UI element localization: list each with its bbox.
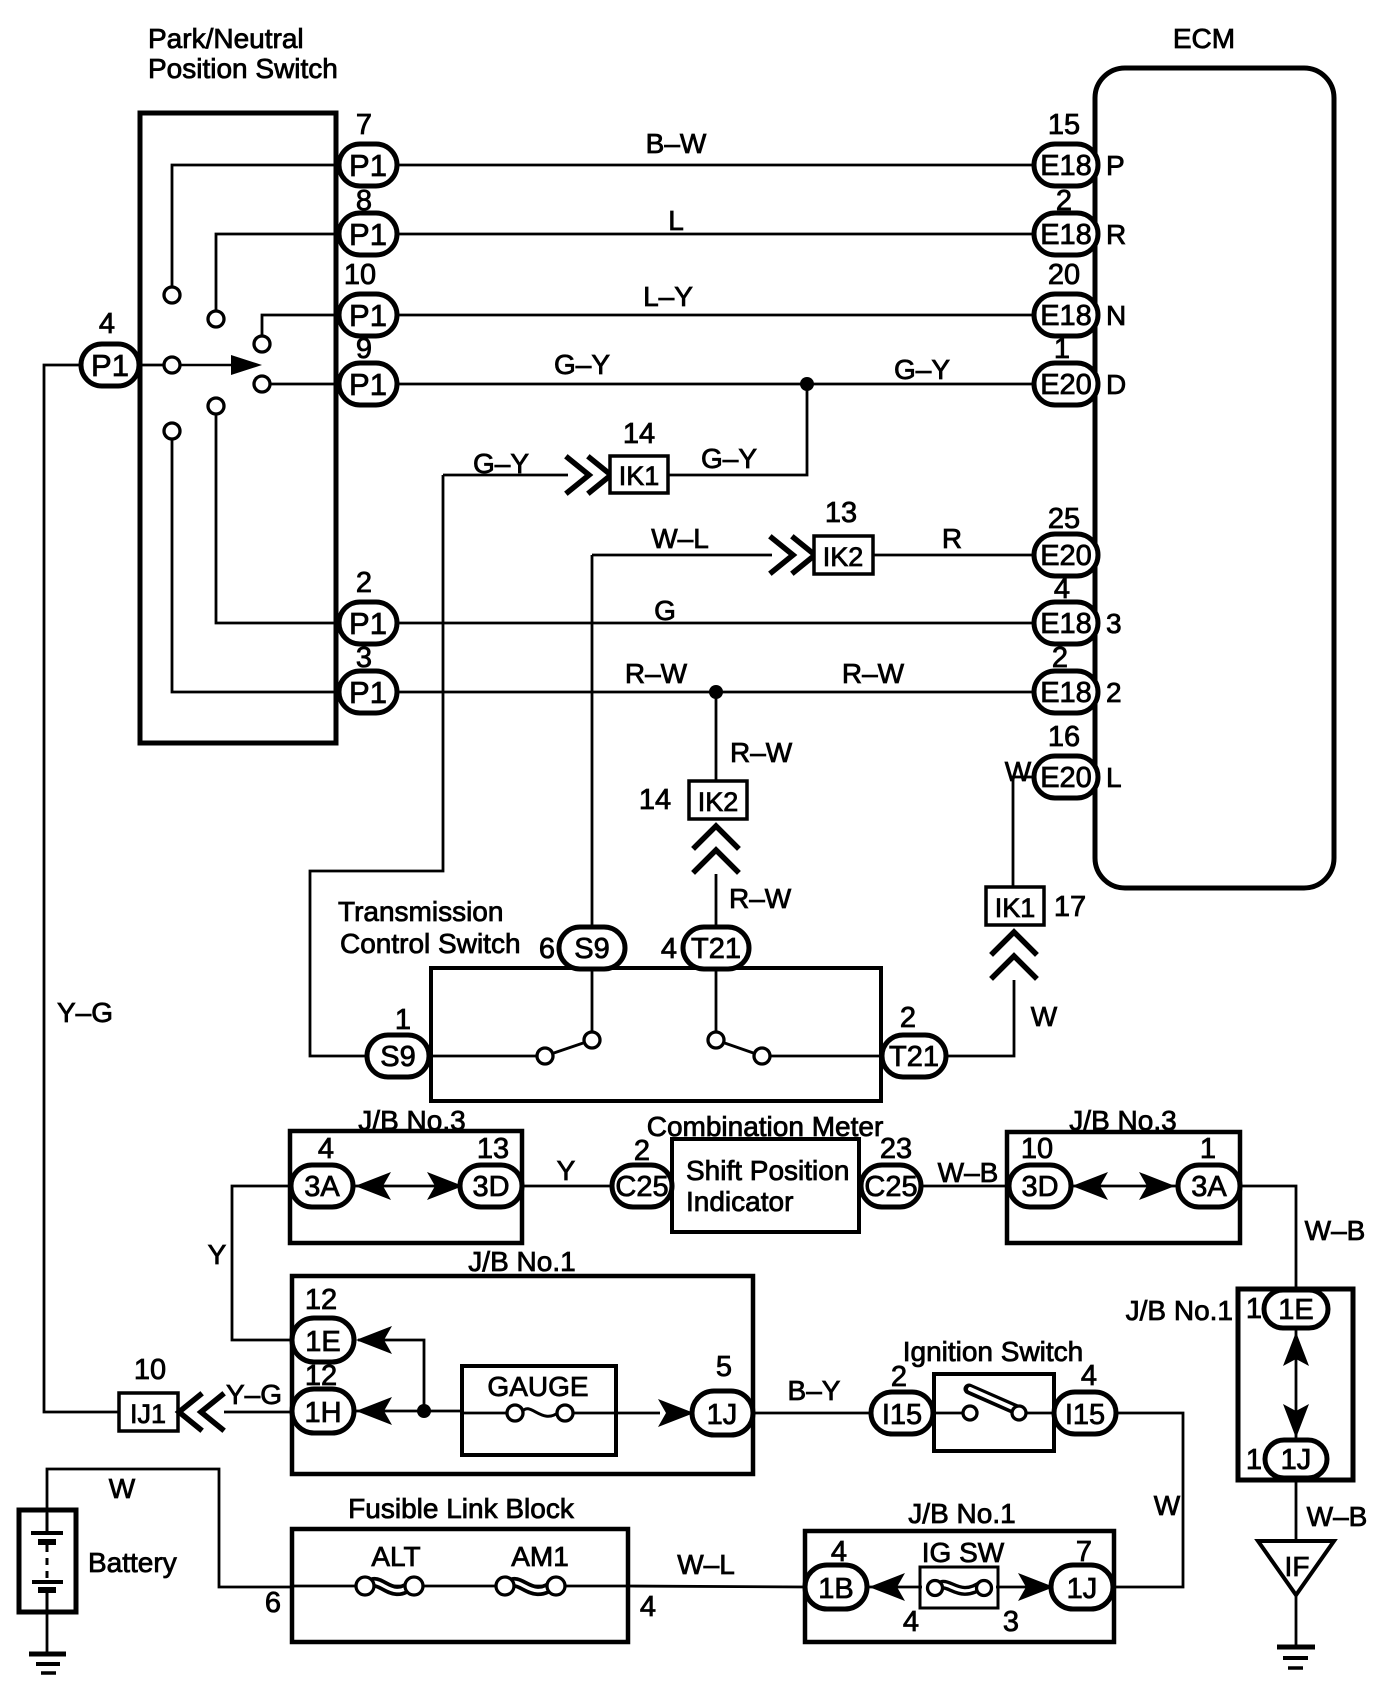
contact pin2 — [208, 398, 224, 414]
svg-text:AM1: AM1 — [511, 1541, 569, 1572]
fuse IG SW box — [920, 1567, 998, 1608]
contact pin9 — [254, 376, 270, 392]
wire Y 3D to C25 — [522, 1185, 612, 1188]
svg-text:P1: P1 — [349, 675, 387, 710]
wire W-B 3A down to 1E — [1240, 1186, 1296, 1290]
svg-text:Y–G: Y–G — [57, 997, 113, 1028]
svg-text:C25: C25 — [615, 1171, 668, 1203]
park/neutral switch box — [140, 113, 336, 743]
connector C25 pin2 — [612, 1165, 672, 1207]
svg-text:Y–G: Y–G — [226, 1379, 282, 1410]
wire W-L to IK2 — [592, 554, 772, 557]
left switch contact b — [584, 1032, 600, 1048]
wire Y-G long P1.4 to IJ1 — [44, 365, 119, 1412]
contact pin3 — [164, 423, 180, 439]
svg-text:Shift Position: Shift Position — [686, 1155, 849, 1186]
svg-text:N: N — [1106, 300, 1126, 331]
svg-text:12: 12 — [305, 1284, 337, 1316]
ground symbol right — [1277, 1647, 1315, 1668]
connector IK1 pin14 — [610, 456, 668, 493]
wire I15.2 into box — [933, 1412, 964, 1415]
wire B-Y 1J to I15 — [753, 1412, 873, 1415]
svg-text:10: 10 — [1021, 1133, 1053, 1165]
svg-text:T21: T21 — [691, 933, 741, 965]
arrow left between 3A 3D — [355, 1172, 391, 1200]
connector 1E pin1 right — [1264, 1290, 1328, 1328]
wire T21.4 down to right contact — [715, 969, 718, 1040]
left switch lever — [545, 1040, 592, 1056]
J/B No.3 left box — [290, 1131, 522, 1243]
svg-text:23: 23 — [880, 1133, 912, 1165]
connector P1 pin4 — [81, 344, 139, 386]
svg-text:4: 4 — [318, 1133, 334, 1165]
wire Y-G IJ1 to 1H — [224, 1411, 293, 1414]
connector E18 R — [1034, 213, 1098, 255]
svg-text:E18: E18 — [1040, 300, 1092, 332]
rotor arrow — [180, 355, 262, 375]
wire S9.6 vertical — [591, 555, 594, 928]
svg-text:Position Switch: Position Switch — [148, 53, 338, 84]
svg-text:1H: 1H — [304, 1397, 341, 1429]
svg-text:E18: E18 — [1040, 150, 1092, 182]
svg-text:W–L: W–L — [677, 1549, 735, 1580]
wire P1 pin10 internal — [262, 315, 336, 339]
svg-text:17: 17 — [1054, 891, 1086, 923]
ground symbol battery — [29, 1654, 66, 1673]
wire 1B to IG SW — [865, 1586, 922, 1589]
connector IJ1 pin10 — [119, 1393, 178, 1431]
connector 3A pin1 — [1178, 1165, 1240, 1207]
wire 1E arrow to junction — [358, 1340, 424, 1411]
connector E20 L — [1034, 756, 1098, 798]
connector T21 pin2 — [882, 1035, 946, 1077]
svg-text:2: 2 — [356, 567, 372, 599]
svg-text:3A: 3A — [1191, 1171, 1227, 1203]
battery B1 — [19, 1510, 76, 1612]
wire junction down to IK1 branch — [668, 384, 807, 475]
wire contact to I15.4 — [1025, 1412, 1056, 1415]
svg-text:W–B: W–B — [1305, 1215, 1366, 1246]
wire 1E to 1J vertical — [1295, 1327, 1298, 1440]
wire IG SW to 1J — [996, 1586, 1053, 1589]
connector 1J pin1 right — [1265, 1440, 1327, 1478]
svg-text:14: 14 — [639, 784, 671, 816]
svg-text:13: 13 — [477, 1133, 509, 1165]
wire IF to ground — [1295, 1595, 1298, 1647]
svg-text:L–Y: L–Y — [643, 281, 693, 312]
svg-text:W: W — [109, 1473, 136, 1504]
chevrons into IK2 — [772, 538, 815, 572]
ignition contact left — [963, 1406, 977, 1420]
arrow right between right 3D 3A — [1139, 1172, 1175, 1200]
svg-text:B–Y: B–Y — [788, 1375, 841, 1406]
svg-text:C25: C25 — [864, 1171, 917, 1203]
svg-text:1: 1 — [1200, 1133, 1216, 1165]
wire P1 pin7 internal — [172, 165, 336, 290]
svg-text:3: 3 — [356, 642, 372, 674]
ignition lever — [969, 1389, 1017, 1410]
fuse IG SW element — [928, 1581, 992, 1596]
svg-text:5: 5 — [716, 1351, 732, 1383]
connector T21 pin4 — [683, 927, 749, 969]
connector P1 pin10 — [339, 294, 397, 336]
fusible link AM1 — [496, 1577, 565, 1595]
wire 3D to 3A right block — [1071, 1185, 1178, 1188]
svg-text:P: P — [1106, 150, 1125, 181]
wire GAUGE to 1J — [616, 1412, 660, 1415]
svg-text:1: 1 — [1246, 1293, 1262, 1325]
svg-text:R: R — [942, 523, 962, 554]
J/B No.1 main box — [292, 1276, 753, 1474]
contact pin4 — [164, 357, 180, 373]
svg-text:1J: 1J — [1281, 1444, 1312, 1476]
connector I15 pin4 — [1054, 1392, 1116, 1434]
contact pin10 — [254, 336, 270, 352]
svg-text:J/B No.1: J/B No.1 — [1126, 1295, 1233, 1326]
svg-text:14: 14 — [623, 418, 655, 450]
chevrons below IK2 pointing up — [695, 826, 737, 871]
wire W-L fusible to 1B — [628, 1586, 807, 1587]
fuse GAUGE element — [462, 1405, 616, 1421]
connector S9 pin1 — [367, 1035, 429, 1077]
svg-text:G: G — [654, 595, 676, 626]
connector P1 pin7 — [339, 144, 397, 186]
svg-text:R: R — [1106, 219, 1126, 250]
svg-text:2: 2 — [900, 1002, 916, 1034]
node junction R-W — [709, 685, 723, 699]
svg-text:6: 6 — [539, 933, 555, 965]
wire R-W down to T21.4 — [715, 874, 718, 928]
connector 3A pin4 — [291, 1165, 353, 1207]
svg-text:GAUGE: GAUGE — [487, 1371, 588, 1402]
wire E20.L to IK1 pin17 — [1013, 777, 1036, 887]
svg-text:3A: 3A — [304, 1171, 340, 1203]
wire G P1.2 to E18.3 — [397, 622, 1036, 625]
svg-text:6: 6 — [265, 1587, 281, 1619]
svg-text:Fusible Link Block: Fusible Link Block — [348, 1493, 575, 1524]
svg-text:25: 25 — [1048, 503, 1080, 535]
svg-text:W: W — [1031, 1001, 1058, 1032]
svg-text:P1: P1 — [349, 217, 387, 252]
svg-text:4: 4 — [640, 1591, 656, 1623]
svg-text:B–W: B–W — [646, 128, 707, 159]
wire W-B C25 to 3D — [921, 1185, 1009, 1188]
svg-text:J/B No.1: J/B No.1 — [908, 1498, 1015, 1529]
contact pin7 — [164, 287, 180, 303]
connector P1 pin8 — [339, 213, 397, 255]
connector IK1 pin17 — [986, 887, 1044, 925]
node junction Y-G — [417, 1404, 431, 1418]
arrow left between right 3D 3A — [1072, 1172, 1108, 1200]
wire right contact to T21.2 — [762, 1055, 884, 1058]
wire G-Y corner down to S9.1 — [310, 475, 443, 1056]
svg-text:E20: E20 — [1040, 762, 1092, 794]
svg-text:3: 3 — [1003, 1606, 1019, 1638]
connector 1E pin12 — [292, 1318, 354, 1362]
arrow right between 3A 3D — [427, 1172, 463, 1200]
wire S9.1 to left contact — [429, 1055, 539, 1058]
right switch lever — [716, 1040, 762, 1056]
svg-text:1: 1 — [1246, 1444, 1262, 1476]
svg-text:20: 20 — [1048, 259, 1080, 291]
svg-text:P1: P1 — [349, 606, 387, 641]
arrow down right column — [1283, 1404, 1309, 1438]
connector I15 pin2 — [871, 1392, 933, 1434]
wire G-Y P1.9 to E20.D — [397, 383, 1036, 386]
svg-text:1B: 1B — [818, 1573, 853, 1605]
svg-text:S9: S9 — [574, 933, 609, 965]
wire P1 pin9 internal — [267, 383, 340, 386]
J/B No.3 right box — [1007, 1132, 1240, 1243]
svg-text:2: 2 — [1106, 677, 1122, 708]
transmission control switch box — [431, 968, 881, 1101]
svg-text:4: 4 — [903, 1606, 919, 1638]
svg-text:Y: Y — [557, 1155, 576, 1186]
wire junction down to IK2 pin14 — [715, 692, 718, 781]
label Park/Neutral Position Switch — [148, 23, 338, 84]
wire W-B 1J to IF — [1295, 1478, 1298, 1541]
svg-text:16: 16 — [1048, 721, 1080, 753]
connector E18 N — [1034, 294, 1098, 336]
svg-text:3D: 3D — [1021, 1171, 1058, 1203]
connector 1H pin12 — [292, 1389, 354, 1433]
label Transmission Control Switch — [338, 896, 521, 959]
svg-text:Park/Neutral: Park/Neutral — [148, 23, 304, 54]
wire 1H to GAUGE — [355, 1410, 462, 1413]
svg-text:1E: 1E — [1278, 1294, 1313, 1326]
left switch contact a — [537, 1048, 553, 1064]
svg-text:IK2: IK2 — [698, 787, 739, 817]
arrow right of IG SW — [1018, 1573, 1054, 1601]
svg-text:4: 4 — [661, 933, 677, 965]
connector IK2 pin13 — [814, 536, 873, 574]
svg-text:4: 4 — [1054, 573, 1070, 605]
wire P1 pin2 internal — [216, 411, 340, 623]
svg-text:2: 2 — [1052, 642, 1068, 674]
fusible link ALT — [356, 1577, 423, 1595]
J/B No.1 right column box — [1238, 1289, 1353, 1480]
svg-text:13: 13 — [825, 497, 857, 529]
wire left contact up to S9.6 — [591, 969, 594, 1040]
svg-text:ALT: ALT — [371, 1541, 420, 1572]
svg-text:IG SW: IG SW — [922, 1537, 1005, 1568]
connector P1 pin2 — [339, 602, 397, 644]
svg-text:Indicator: Indicator — [686, 1186, 793, 1217]
label Shift Position Indicator — [686, 1155, 849, 1217]
arrow up right column — [1283, 1332, 1309, 1366]
svg-text:E18: E18 — [1040, 608, 1092, 640]
svg-text:15: 15 — [1048, 109, 1080, 141]
svg-text:4: 4 — [99, 308, 115, 340]
connector E18 P — [1034, 144, 1098, 186]
wire P1 pin3 internal — [172, 436, 340, 692]
svg-text:IJ1: IJ1 — [130, 1399, 166, 1429]
connector E20 25 — [1034, 534, 1098, 576]
right switch contact a — [708, 1032, 724, 1048]
contact pin8 — [208, 311, 224, 327]
svg-text:2: 2 — [891, 1361, 907, 1393]
svg-text:G–Y: G–Y — [554, 349, 610, 380]
svg-text:IK1: IK1 — [995, 893, 1036, 923]
wire L-Y P1.10 to E18.N — [397, 314, 1036, 317]
svg-text:W–B: W–B — [938, 1157, 999, 1188]
chevrons after IJ1 pointing left — [179, 1395, 222, 1429]
svg-text:R–W: R–W — [842, 658, 905, 689]
svg-text:12: 12 — [305, 1360, 337, 1392]
node junction G-Y — [800, 377, 814, 391]
connector S9 pin6 — [559, 927, 625, 969]
svg-text:G–Y: G–Y — [473, 448, 529, 479]
svg-text:L: L — [1106, 762, 1122, 793]
connector P1 pin3 — [339, 671, 397, 713]
svg-text:1J: 1J — [1067, 1573, 1098, 1605]
wire battery to ground — [46, 1612, 49, 1654]
svg-text:Battery: Battery — [88, 1547, 177, 1578]
svg-text:Transmission: Transmission — [338, 896, 503, 927]
svg-text:R–W: R–W — [625, 658, 688, 689]
svg-text:L: L — [668, 205, 684, 236]
connector 1B pin4 — [805, 1565, 867, 1609]
svg-text:4: 4 — [831, 1536, 847, 1568]
connector E18 3 — [1034, 602, 1098, 644]
svg-text:T21: T21 — [889, 1041, 939, 1073]
svg-text:7: 7 — [356, 109, 372, 141]
wire L P1.8 to E18.R — [397, 233, 1036, 236]
svg-text:G–Y: G–Y — [894, 354, 950, 385]
svg-text:IK1: IK1 — [619, 461, 660, 491]
svg-text:P1: P1 — [349, 148, 387, 183]
svg-text:P1: P1 — [349, 367, 387, 402]
svg-text:2: 2 — [1056, 185, 1072, 217]
wire 3A to 3D — [353, 1185, 460, 1188]
svg-text:ECM: ECM — [1173, 23, 1235, 54]
wire R IK2 to E20.25 — [873, 554, 1036, 557]
svg-text:1: 1 — [1054, 333, 1070, 365]
svg-text:Y: Y — [208, 1239, 227, 1270]
svg-text:7: 7 — [1076, 1536, 1092, 1568]
svg-text:E20: E20 — [1040, 540, 1092, 572]
arrow left of 1H wire — [356, 1397, 392, 1425]
svg-text:P1: P1 — [349, 298, 387, 333]
wire B-W P1.7 to E18.P — [397, 164, 1036, 167]
svg-text:G–Y: G–Y — [701, 443, 757, 474]
svg-text:Ignition Switch: Ignition Switch — [903, 1336, 1084, 1367]
arrow left of IG SW — [869, 1573, 905, 1601]
ignition contact right — [1012, 1406, 1026, 1420]
svg-text:D: D — [1106, 369, 1126, 400]
battery wire W to fusible link — [47, 1469, 294, 1587]
svg-text:3D: 3D — [472, 1171, 509, 1203]
svg-text:S9: S9 — [380, 1041, 415, 1073]
chevrons below IK1 pointing up — [993, 932, 1035, 977]
svg-text:8: 8 — [356, 185, 372, 217]
svg-text:R–W: R–W — [730, 737, 793, 768]
svg-text:1E: 1E — [305, 1326, 340, 1358]
svg-text:W: W — [1005, 756, 1032, 787]
connector P1 pin9 — [339, 363, 397, 405]
svg-text:E18: E18 — [1040, 677, 1092, 709]
svg-text:I15: I15 — [882, 1399, 922, 1431]
svg-text:E20: E20 — [1040, 369, 1092, 401]
wire W I15.4 down to 1J — [1116, 1413, 1183, 1587]
ground connector IF triangle — [1258, 1541, 1334, 1595]
svg-text:J/B No.1: J/B No.1 — [468, 1246, 575, 1277]
arrow right before 1J — [658, 1399, 694, 1427]
wire G-Y into IK1 — [443, 474, 568, 477]
svg-text:W–L: W–L — [651, 523, 709, 554]
connector E18 2 — [1034, 671, 1098, 713]
svg-text:E18: E18 — [1040, 219, 1092, 251]
connector C25 pin23 — [861, 1165, 921, 1207]
fuse GAUGE box — [462, 1366, 616, 1455]
J/B No.1 bottom box — [805, 1531, 1114, 1642]
wire P1 pin4 stub — [136, 364, 167, 367]
wire Y 3A to 1E — [232, 1186, 293, 1340]
ignition switch box — [934, 1374, 1054, 1451]
connector 1J pin7 — [1051, 1565, 1113, 1609]
fusible link block box — [292, 1529, 628, 1642]
chevrons into IK1 — [568, 458, 611, 492]
svg-text:W–B: W–B — [1307, 1501, 1368, 1532]
svg-text:1J: 1J — [707, 1399, 738, 1431]
ECM box — [1095, 68, 1334, 888]
wire P1 pin8 internal — [216, 234, 336, 314]
connector 3D pin10 — [1009, 1165, 1071, 1207]
svg-text:P1: P1 — [91, 348, 129, 383]
fusible link internal wire — [294, 1585, 626, 1588]
svg-text:W: W — [1154, 1490, 1181, 1521]
svg-text:3: 3 — [1106, 608, 1122, 639]
connector IK2 pin14 — [689, 781, 747, 819]
svg-text:IK2: IK2 — [823, 542, 864, 572]
svg-text:4: 4 — [1081, 1360, 1097, 1392]
svg-text:10: 10 — [134, 1354, 166, 1386]
svg-text:IF: IF — [1285, 1551, 1310, 1582]
svg-text:I15: I15 — [1065, 1399, 1105, 1431]
shift position indicator box — [672, 1139, 859, 1232]
connector E20 D — [1034, 363, 1098, 405]
wire W IK1 down to T21.2 — [946, 980, 1014, 1056]
right switch contact b — [754, 1048, 770, 1064]
wire R-W P1.3 to E18.2 — [397, 691, 1036, 694]
svg-text:Control Switch: Control Switch — [340, 928, 521, 959]
arrow left of 1E wire — [356, 1326, 392, 1354]
svg-text:10: 10 — [344, 259, 376, 291]
svg-text:1: 1 — [395, 1004, 411, 1036]
connector 3D pin13 — [460, 1165, 522, 1207]
svg-text:R–W: R–W — [729, 883, 792, 914]
svg-text:9: 9 — [356, 333, 372, 365]
connector 1J pin5 — [692, 1391, 753, 1435]
